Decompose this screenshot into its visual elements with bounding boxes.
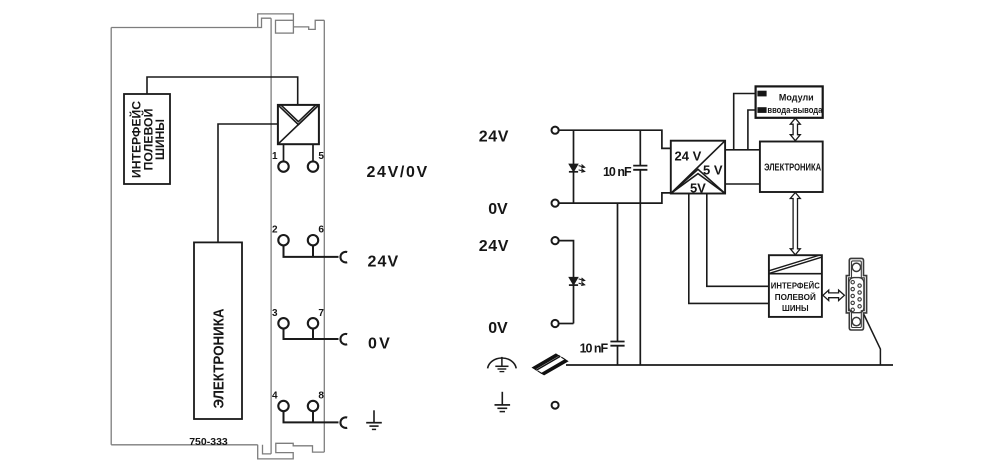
block io-modules — [756, 86, 824, 117]
wire housing top edge — [111, 27, 258, 29]
svg-text:1: 1 — [272, 151, 278, 162]
wire converter to electronics (2 lines) — [725, 150, 760, 184]
svg-text:10 nF: 10 nF — [603, 165, 632, 179]
svg-text:24V/0V: 24V/0V — [367, 164, 428, 181]
wire housing inner vertical divider — [270, 18, 272, 454]
node terminal 24V top — [552, 127, 559, 134]
wire contacts 2,6 to 24V rail — [283, 245, 339, 257]
svg-text:ЭЛЕКТРОНИКА: ЭЛЕКТРОНИКА — [211, 308, 228, 408]
wire housing left edge — [110, 28, 112, 445]
svg-text:ЭЛЕКТРОНИКА: ЭЛЕКТРОНИКА — [764, 162, 821, 174]
node contact 2 — [278, 235, 288, 245]
wire housing bottom inner step — [263, 445, 272, 454]
svg-text:2: 2 — [272, 225, 278, 236]
node contact 4 — [278, 401, 288, 411]
capacitor C2 10nF — [610, 203, 624, 365]
node contact 6 — [308, 235, 318, 245]
LED D2 branch — [559, 241, 585, 324]
node contact 7 — [308, 318, 318, 328]
block fieldbus-interface (left module) — [124, 94, 170, 184]
svg-text:Модули: Модули — [779, 92, 814, 102]
node cage clamp 24V — [340, 252, 347, 263]
wire connector shield to earth rail — [864, 315, 881, 366]
svg-text:24 V: 24 V — [675, 149, 702, 164]
svg-text:ПОЛЕВОЙ: ПОЛЕВОЙ — [775, 291, 816, 302]
wire housing top inner step — [258, 18, 271, 27]
svg-text:10 nF: 10 nF — [580, 342, 609, 356]
wire housing top latch plateau — [258, 14, 294, 28]
capacitor C1 10nF — [633, 130, 647, 365]
svg-text:5: 5 — [318, 151, 324, 162]
wire contacts 3,7 to 0V rail — [283, 329, 339, 340]
svg-text:750-333: 750-333 — [189, 436, 228, 448]
arrow electronics/fieldbus-interface — [790, 193, 800, 255]
DIN rail icon — [532, 354, 570, 376]
earth ground symbol — [495, 392, 511, 412]
node contact 3 — [278, 318, 288, 328]
LED D1 — [569, 130, 585, 203]
svg-text:24V: 24V — [368, 253, 399, 270]
wire housing bottom latch hook — [258, 443, 325, 459]
wire io-modules bus to converter wire — [734, 94, 756, 150]
connector DB9 X1 — [846, 258, 866, 330]
dc-dc converter U2 24V/5V — [671, 141, 725, 194]
svg-text:8: 8 — [318, 391, 324, 402]
block fieldbus-interface (right) — [769, 255, 822, 317]
wire housing top right notch — [293, 20, 324, 29]
arrow fieldbus-interface/connector — [823, 290, 845, 300]
block electronics (left module) — [194, 242, 242, 419]
svg-text:0V: 0V — [488, 320, 508, 337]
node cage clamp 0V — [340, 334, 347, 345]
wire 24V feed to converter — [559, 130, 671, 148]
node terminal 0V bottom — [552, 320, 559, 327]
node contact 5 — [308, 161, 318, 171]
svg-text:3: 3 — [272, 308, 278, 319]
svg-text:6: 6 — [318, 225, 324, 236]
functional earth symbol — [488, 357, 517, 372]
node contact 8 — [308, 401, 318, 411]
block electronics (right) — [760, 142, 823, 193]
node unconnected terminal — [552, 402, 559, 409]
wire housing right edge — [323, 20, 325, 452]
wire contacts 4,8 to earth rail — [283, 411, 339, 422]
svg-text:4: 4 — [272, 391, 278, 402]
svg-text:ИНТЕРФЕЙС: ИНТЕРФЕЙС — [771, 279, 820, 290]
wire housing bottom edge — [111, 444, 258, 446]
node contact 1 — [278, 161, 288, 171]
dc-dc converter U1 (left module) — [278, 105, 319, 144]
svg-text:0V: 0V — [368, 336, 390, 353]
svg-text:5 V: 5 V — [703, 163, 723, 178]
wire 0V return to converter — [559, 193, 671, 203]
arrow io-modules/electronics — [790, 118, 800, 141]
svg-text:ШИНЫ: ШИНЫ — [782, 303, 809, 313]
node housing top window — [276, 20, 294, 33]
wire converter 5V outputs to fieldbus-interface — [689, 194, 769, 304]
wire terminal 0V bottom stub — [559, 323, 574, 325]
wire converter to contacts 1,5 — [284, 144, 314, 161]
svg-text:24V: 24V — [479, 238, 509, 255]
svg-text:5V: 5V — [690, 180, 706, 195]
ground symbol (row 4) — [366, 410, 382, 429]
node terminal 24V bottom — [552, 237, 559, 244]
wire fieldbus-interface to converter — [147, 77, 298, 105]
svg-text:7: 7 — [318, 308, 324, 319]
coupler housing outline 750-333 — [111, 14, 324, 459]
svg-text:ввода-вывода: ввода-вывода — [767, 105, 823, 115]
svg-text:24V: 24V — [479, 129, 509, 146]
wire electronics to converter — [218, 124, 278, 242]
svg-text:ШИНЫ: ШИНЫ — [153, 119, 167, 160]
svg-text:0V: 0V — [488, 201, 508, 218]
node terminal 0V top — [552, 200, 559, 207]
node cage clamp earth — [340, 417, 347, 428]
wire earth rail — [566, 364, 893, 366]
